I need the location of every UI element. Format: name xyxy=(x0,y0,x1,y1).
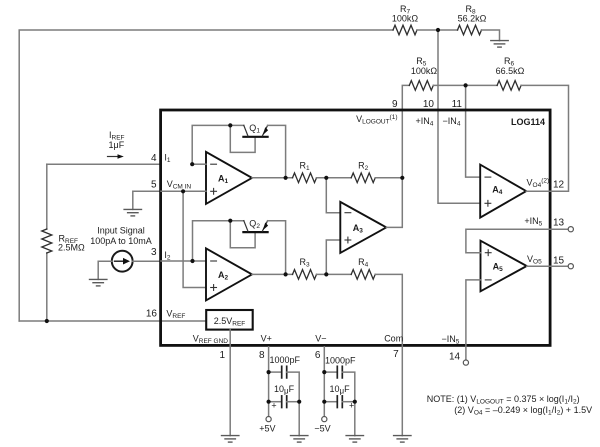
svg-text:5: 5 xyxy=(151,179,157,190)
wire R1 to R2 xyxy=(317,177,352,179)
svg-text:1000pF: 1000pF xyxy=(270,355,301,365)
wire Q2 emitter to A2 output xyxy=(268,221,286,275)
wire R7 to node R8 xyxy=(417,29,458,31)
resistor R3 xyxy=(293,270,317,280)
node junction R3/R4/A3+ xyxy=(324,272,328,276)
ground (input signal) xyxy=(90,279,107,286)
node junctions V+ branch xyxy=(267,370,271,374)
ground (R8) xyxy=(491,41,508,48)
node junction R1/R2/A3- xyxy=(324,176,328,180)
svg-text:+5V: +5V xyxy=(259,424,275,434)
wire R5 to node xyxy=(433,84,497,86)
node junction R7/R8/+IN4 xyxy=(436,28,440,32)
ground (V- branch) xyxy=(346,436,363,443)
transistor Q1 xyxy=(243,125,268,136)
capacitor 1000pF (V+) xyxy=(269,371,282,373)
node junction Q1 base loop xyxy=(228,123,232,127)
resistor R4 xyxy=(351,270,375,280)
node junction A2 out / Q2 emitter xyxy=(284,272,288,276)
wire Q1 emitter to A1 output xyxy=(268,125,286,177)
wire VCM junction to A1 + input xyxy=(161,190,206,192)
resistor R5 xyxy=(409,81,433,91)
svg-text:1μF: 1μF xyxy=(109,140,125,150)
node junction R5/R6/-IN4 xyxy=(464,83,468,87)
svg-text:6: 6 xyxy=(315,350,321,361)
wire +IN5 pin 13 to A5 + input xyxy=(466,229,568,253)
svg-text:Com: Com xyxy=(384,334,403,344)
wire A3 + input xyxy=(326,240,340,274)
ground (VCM IN) xyxy=(124,209,141,216)
resistor RREF xyxy=(42,229,52,253)
wire I1 input to pin 4 xyxy=(47,163,161,165)
resistor R6 xyxy=(497,81,521,91)
wire I1 inside to A1 - input xyxy=(192,163,206,165)
wire R6 to VO4 feedback xyxy=(521,85,568,191)
op-amp A3 xyxy=(340,202,386,253)
node junctions V- branch xyxy=(322,370,326,374)
wire A1 output to R1 xyxy=(252,177,293,179)
svg-text:3: 3 xyxy=(151,247,157,258)
op-amp A5 xyxy=(481,241,527,292)
svg-text:12: 12 xyxy=(553,179,565,190)
terminal +5V xyxy=(266,417,271,422)
svg-text:16: 16 xyxy=(146,309,158,320)
current source input signal xyxy=(112,251,133,272)
node junction RREF/VREF rail xyxy=(45,319,49,323)
svg-text:NOTE: (1) VLOGOUT = 0.375 × lo: NOTE: (1) VLOGOUT = 0.375 × log(I1/I2) xyxy=(427,394,580,406)
svg-text:14: 14 xyxy=(449,351,461,362)
terminal pin 14 xyxy=(463,360,468,365)
svg-text:−5V: −5V xyxy=(314,424,330,434)
op-amp A4 xyxy=(480,165,526,218)
node junction I1 / A1 feedback xyxy=(190,162,194,166)
wire pin 8 V+ branch xyxy=(268,347,270,417)
svg-text:LOG114: LOG114 xyxy=(511,117,545,127)
wire Q2 base loop xyxy=(230,221,255,248)
wire VLOGOUT pin 9 up to R5 xyxy=(402,85,409,177)
svg-text:10μF: 10μF xyxy=(274,384,295,396)
wire A5 output to pin 15 xyxy=(527,265,569,267)
svg-text:11: 11 xyxy=(452,99,463,110)
svg-text:Input Signal: Input Signal xyxy=(97,226,145,236)
ground (VREF GND pin 1) xyxy=(222,436,239,443)
wire top feedback from VREF loop to R7 xyxy=(19,30,393,321)
svg-text:4: 4 xyxy=(151,153,157,164)
svg-text:+: + xyxy=(271,401,276,411)
op-amp A1 xyxy=(206,152,252,204)
wire VCM IN to pin 5 xyxy=(133,191,161,209)
terminal pin 13 xyxy=(568,227,573,232)
ground (V+ branch) xyxy=(291,436,308,443)
node junction I2 / A2 feedback xyxy=(190,259,194,263)
wire R3 to R4 xyxy=(317,273,352,275)
svg-text:2.5MΩ: 2.5MΩ xyxy=(58,243,85,253)
svg-text:100pA to 10mA: 100pA to 10mA xyxy=(90,236,152,246)
svg-text:100kΩ: 100kΩ xyxy=(411,66,438,76)
wire A5 - input down to pin 14 xyxy=(466,280,481,360)
op-amp A2 xyxy=(206,248,252,300)
terminal pin 15 xyxy=(568,264,573,269)
capacitor 10uF (V-) xyxy=(324,401,337,403)
svg-text:56.2kΩ: 56.2kΩ xyxy=(458,13,487,23)
wire +IN4 from node down to pin 10 and A4 + input xyxy=(438,30,480,203)
ground (Com pin 7) xyxy=(394,436,411,443)
svg-text:8: 8 xyxy=(259,350,265,361)
IREF current direction arrow xyxy=(108,156,119,158)
wire I2 to A2 - input xyxy=(161,260,206,262)
svg-text:1: 1 xyxy=(220,350,226,361)
wire A3 - input xyxy=(326,178,340,213)
svg-text:10μF: 10μF xyxy=(329,384,350,396)
LOG114 main box xyxy=(161,110,550,345)
node junction A1 out / Q1 emitter xyxy=(284,176,288,180)
wire R2 to VLOGOUT node xyxy=(375,177,402,179)
svg-text:V−: V− xyxy=(315,334,326,344)
svg-text:15: 15 xyxy=(553,255,565,266)
node junction Q2 base loop xyxy=(228,219,232,223)
wire source to pin 3 xyxy=(132,260,161,262)
wire RREF branch vertical xyxy=(46,164,48,229)
capacitor 1000pF (V-) xyxy=(324,371,337,373)
terminal -5V xyxy=(322,417,327,422)
svg-text:7: 7 xyxy=(393,349,399,360)
wire A2 feedback up to Q2 xyxy=(193,221,244,261)
transistor Q2 xyxy=(243,221,268,232)
wire -IN4 node down to pin 11 and A4 - input xyxy=(466,85,481,177)
svg-text:V+: V+ xyxy=(261,334,272,344)
svg-text:10: 10 xyxy=(423,99,435,110)
svg-text:100kΩ: 100kΩ xyxy=(392,13,419,23)
resistor R8 xyxy=(458,25,482,35)
resistor R2 xyxy=(351,173,375,183)
wire Q1 base loop xyxy=(230,125,255,152)
wire A3 output up to VLOGOUT node xyxy=(386,178,402,228)
node junction R2/A3out/pin9 xyxy=(400,176,404,180)
resistor R7 xyxy=(393,25,417,35)
wire pin 6 V- branch xyxy=(323,347,325,417)
wire R4 to Com pin 7 xyxy=(375,274,402,435)
wire 2.5VREF to pin 1 ground xyxy=(229,330,231,436)
wire R8 to ground xyxy=(482,30,500,41)
wire A1 feedback up to Q1 xyxy=(192,125,244,164)
wire A4 output to pin 12 xyxy=(526,190,551,192)
wire source left leg to ground xyxy=(98,261,112,279)
svg-text:13: 13 xyxy=(553,218,565,229)
wire A2 output to R3 xyxy=(252,273,293,275)
svg-text:9: 9 xyxy=(392,99,398,110)
wire VCM down to A2 + input xyxy=(183,191,206,287)
2.5VREF box xyxy=(206,310,253,330)
node junction VCM xyxy=(181,189,185,193)
wire VREF bottom rail to pin 16 xyxy=(19,320,206,322)
resistor R1 xyxy=(293,173,317,183)
svg-text:1000pF: 1000pF xyxy=(325,356,356,366)
svg-text:66.5kΩ: 66.5kΩ xyxy=(496,66,525,76)
capacitor 10uF (V+) xyxy=(269,401,282,403)
